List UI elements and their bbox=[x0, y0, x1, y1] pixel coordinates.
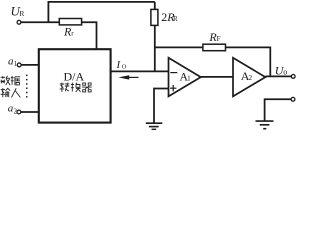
wire I_O from box to A1 inverting input bbox=[111, 70, 169, 72]
wire 2R_R bottom to inverting node bbox=[154, 25, 156, 71]
terminal lower bbox=[291, 97, 295, 101]
dots ellipsis vertical bbox=[26, 75, 28, 98]
ground left bbox=[146, 123, 163, 129]
hanzi 据 bbox=[11, 76, 20, 85]
op-amp A2 bbox=[233, 58, 265, 97]
hanzi 转 bbox=[60, 83, 70, 92]
D/A converter box bbox=[39, 49, 111, 122]
hanzi 数 bbox=[1, 76, 11, 85]
svg-text:2: 2 bbox=[248, 73, 252, 82]
terminal a1 bbox=[8, 55, 21, 68]
wire lower terminal to ground bbox=[265, 99, 291, 121]
wire A2 output to terminal bbox=[265, 75, 291, 77]
wire A1 output to A2 bbox=[201, 76, 233, 78]
wire top loop from node to 2R_R top bbox=[48, 2, 155, 22]
ground right bbox=[256, 121, 274, 129]
resistor 2R_R bbox=[151, 9, 178, 25]
terminal U_R bbox=[11, 4, 25, 25]
wire A1 + input to ground bbox=[154, 89, 169, 123]
wire R_r to D/A box top bbox=[82, 22, 97, 49]
op-amp A1 bbox=[169, 58, 201, 97]
svg-text:R: R bbox=[173, 15, 178, 23]
terminal U_O bbox=[275, 63, 295, 78]
svg-text:O: O bbox=[122, 63, 127, 70]
label I_O bbox=[116, 59, 127, 71]
svg-text:D/A: D/A bbox=[64, 69, 85, 83]
svg-text:1: 1 bbox=[14, 60, 18, 68]
svg-text:R: R bbox=[19, 9, 24, 18]
wire U_R to R_r bbox=[21, 21, 59, 23]
wire branch to R_F bbox=[155, 46, 203, 48]
hanzi 器 bbox=[82, 83, 92, 92]
hanzi 换 bbox=[71, 83, 81, 92]
hanzi 输 bbox=[1, 88, 10, 97]
resistor R_F bbox=[203, 30, 226, 51]
terminal a2 bbox=[8, 103, 21, 116]
resistor R_r bbox=[59, 19, 81, 39]
svg-text:F: F bbox=[217, 35, 221, 43]
svg-text:o: o bbox=[283, 68, 287, 77]
wire a1 to box bbox=[21, 64, 39, 66]
svg-text:1: 1 bbox=[187, 74, 191, 83]
hanzi 入 bbox=[12, 88, 21, 97]
wire a2 to box bbox=[21, 111, 39, 113]
current arrow bbox=[119, 75, 139, 79]
svg-text:2: 2 bbox=[14, 107, 18, 115]
wire R_F to output node bbox=[226, 47, 271, 76]
